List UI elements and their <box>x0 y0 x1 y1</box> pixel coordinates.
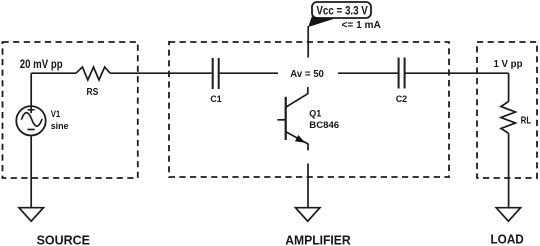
wire corner to RS <box>31 72 76 74</box>
amplifier block dashed boundary <box>169 42 449 177</box>
ground (load) <box>496 208 520 222</box>
wire C1 to gain label <box>220 72 278 74</box>
wire V1 bottom to ground <box>30 136 32 208</box>
wire corner to RL <box>508 73 510 101</box>
svg-text:SOURCE: SOURCE <box>37 232 91 246</box>
svg-text:C2: C2 <box>396 94 408 104</box>
load block dashed boundary <box>477 42 537 178</box>
svg-text:Q1: Q1 <box>309 108 321 119</box>
wire Vcc to amplifier <box>307 26 309 58</box>
resistor RL <box>501 102 531 134</box>
source block dashed boundary <box>3 42 138 178</box>
svg-text:AMPLIFIER: AMPLIFIER <box>285 233 351 246</box>
transistor Q1 <box>277 97 339 151</box>
ground (source) <box>19 208 43 222</box>
wire emitter to ground <box>307 164 309 208</box>
wire collector stub <box>286 87 308 107</box>
svg-text:LOAD: LOAD <box>491 232 524 246</box>
wire RS to C1 <box>110 72 212 74</box>
wire V1 top to corner <box>30 73 32 106</box>
svg-text:sine: sine <box>51 120 69 131</box>
svg-text:1 V pp: 1 V pp <box>494 59 523 70</box>
svg-text:RL: RL <box>521 116 532 127</box>
resistor RS <box>76 67 110 98</box>
capacitor C2 <box>396 58 408 105</box>
svg-text:RS: RS <box>87 87 99 98</box>
wire gain label to C2 <box>338 72 398 74</box>
svg-text:<= 1 mA: <= 1 mA <box>342 20 382 31</box>
svg-text:Av = 50: Av = 50 <box>290 69 324 80</box>
voltage source V1 <box>16 106 68 135</box>
wire C2 to load <box>406 72 509 74</box>
ground (amplifier) <box>296 208 320 222</box>
svg-text:Vcc = 3.3 V: Vcc = 3.3 V <box>316 4 368 17</box>
wire RL to ground <box>508 133 510 207</box>
svg-text:20 mV pp: 20 mV pp <box>20 57 63 71</box>
svg-text:C1: C1 <box>210 94 221 104</box>
svg-text:BC846: BC846 <box>309 120 339 131</box>
capacitor C1 <box>210 58 221 104</box>
svg-text:V1: V1 <box>51 108 61 119</box>
Vcc callout balloon <box>308 2 371 27</box>
